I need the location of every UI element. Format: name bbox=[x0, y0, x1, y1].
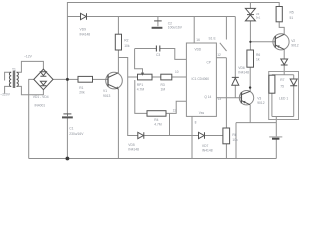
diode VD5 bbox=[138, 132, 144, 138]
transformer T1 bbox=[9, 72, 11, 86]
svg-text:VD1 - VD4: VD1 - VD4 bbox=[33, 95, 49, 99]
wire V2 collector to R5 bbox=[279, 22, 284, 35]
svg-text:~220V: ~220V bbox=[0, 92, 10, 96]
node bridge output junction bbox=[66, 78, 69, 81]
wire bridge output to R1 bbox=[67, 78, 78, 80]
bridge rectifier VD1-VD4 bbox=[34, 69, 53, 90]
svg-text:10k: 10k bbox=[124, 44, 130, 48]
wire VD10 to LED box bbox=[283, 65, 285, 71]
svg-text:LED 1: LED 1 bbox=[279, 97, 288, 101]
wire C3 right to IC pin9 bbox=[160, 49, 187, 60]
svg-text:20k: 20k bbox=[79, 91, 85, 95]
svg-text:R6: R6 bbox=[256, 53, 260, 57]
svg-text:C1: C1 bbox=[69, 127, 73, 131]
svg-text:100u/16V: 100u/16V bbox=[168, 26, 183, 30]
wire C3 left bbox=[135, 48, 156, 50]
capacitor C2 bbox=[154, 20, 162, 22]
svg-text:10k: 10k bbox=[232, 138, 238, 142]
wire R4 right to pin11 bbox=[166, 101, 186, 113]
svg-text:~12V: ~12V bbox=[24, 55, 33, 59]
svg-text:Vss: Vss bbox=[199, 111, 205, 115]
resistor R1 bbox=[78, 76, 93, 82]
wire R3 to IC pin10 bbox=[172, 76, 187, 78]
wire C2 drop bbox=[157, 17, 159, 27]
svg-text:11: 11 bbox=[173, 109, 177, 113]
resistor R5 bbox=[276, 7, 282, 22]
svg-text:V3: V3 bbox=[257, 97, 261, 101]
svg-text:IN4148: IN4148 bbox=[238, 70, 249, 74]
svg-text:C2: C2 bbox=[168, 21, 172, 25]
wire Q14 stub to R6 bbox=[216, 58, 241, 128]
wire R2 to V1 collector bbox=[117, 50, 119, 73]
wire bridge plus down to C1 bbox=[66, 79, 68, 113]
svg-text:RP1: RP1 bbox=[137, 83, 144, 87]
wire R2 drop from rail bbox=[117, 17, 119, 35]
potentiometer RP1 bbox=[138, 74, 153, 80]
svg-text:4.7M: 4.7M bbox=[154, 122, 162, 126]
svg-text:5v1: 5v1 bbox=[256, 15, 261, 19]
wire VD5 to VD7 bbox=[144, 135, 198, 137]
wire IC VDD drop bbox=[193, 17, 195, 44]
resistor R2 bbox=[115, 34, 121, 50]
wire RP1 left stub bbox=[128, 76, 138, 78]
svg-text:75: 75 bbox=[280, 84, 284, 88]
svg-text:16: 16 bbox=[196, 38, 200, 42]
switch S1 upper wire bbox=[225, 17, 227, 40]
wire VD8 to V3 base bbox=[234, 85, 236, 98]
wire transformer primary leads bbox=[5, 72, 12, 94]
svg-text:VDD: VDD bbox=[195, 48, 202, 52]
wire VD7 to R6 bbox=[205, 135, 223, 137]
svg-text:R7: R7 bbox=[280, 78, 284, 82]
wire V2 base bbox=[250, 41, 275, 43]
svg-text:IN4148: IN4148 bbox=[202, 148, 213, 152]
wire secondary top to bridge top bbox=[17, 61, 44, 72]
svg-text:1k: 1k bbox=[256, 58, 260, 62]
svg-text:R2: R2 bbox=[124, 39, 128, 43]
capacitor C3 bbox=[156, 46, 159, 52]
wire R6b to V3 collector bbox=[249, 67, 251, 91]
node V2 base junction bbox=[249, 41, 251, 43]
wire bridge left to ground bbox=[29, 79, 34, 158]
svg-text:IN4148: IN4148 bbox=[80, 32, 91, 36]
svg-text:8: 8 bbox=[195, 120, 197, 124]
wire LED box inner bottom bbox=[272, 86, 294, 120]
svg-text:S1 E: S1 E bbox=[209, 36, 217, 40]
wire collector node jog to RP1 feed bbox=[118, 58, 137, 136]
wire V3 emitter down bbox=[249, 105, 251, 123]
svg-text:VD9: VD9 bbox=[80, 28, 87, 32]
wire LED box inner top split bbox=[272, 72, 294, 80]
svg-text:R3: R3 bbox=[161, 83, 165, 87]
potentiometer RP1 wiper arrow bbox=[141, 73, 144, 76]
capacitor C1 bbox=[63, 113, 71, 115]
IC1 CD4060 box bbox=[186, 43, 216, 116]
transistor V2 bbox=[273, 34, 289, 50]
bowtie VZ bbox=[245, 8, 255, 14]
svg-text:IC1 CD4060: IC1 CD4060 bbox=[192, 77, 210, 81]
svg-text:IN4148: IN4148 bbox=[128, 148, 139, 152]
svg-text:IN4001: IN4001 bbox=[35, 103, 46, 107]
resistor R3 bbox=[161, 74, 172, 80]
svg-text:R5: R5 bbox=[290, 11, 294, 15]
wire LED return through C4 bbox=[275, 120, 277, 159]
transistor V1 bbox=[106, 72, 123, 89]
wire rail 12V bbox=[87, 16, 236, 18]
svg-text:VD5: VD5 bbox=[128, 143, 135, 147]
wire IC pin12 stub bbox=[216, 57, 226, 59]
diode VD8 vertical bbox=[232, 77, 239, 85]
wire bowtie drop from top rail bbox=[249, 3, 251, 9]
wire R4 node drop to VD5 wire bbox=[169, 113, 171, 135]
svg-text:9012: 9012 bbox=[291, 43, 299, 47]
diode VD7 bbox=[199, 132, 205, 138]
svg-text:13: 13 bbox=[218, 97, 222, 101]
wire RP1 to R3 bbox=[152, 76, 161, 78]
wire V1 emitter to ground bbox=[117, 89, 119, 158]
wire V2 emitter to VD10 bbox=[283, 49, 285, 59]
svg-text:51: 51 bbox=[290, 16, 294, 20]
svg-text:4.7M: 4.7M bbox=[137, 87, 145, 91]
switch S1 blade bbox=[220, 43, 227, 51]
wire C1 to ground rail bbox=[66, 118, 68, 159]
wire R1 to V1 base bbox=[93, 78, 109, 80]
diode VD10 bbox=[281, 59, 288, 65]
resistor R4 bbox=[147, 111, 166, 117]
svg-text:1M: 1M bbox=[161, 87, 166, 91]
resistor R6 bbox=[223, 128, 230, 144]
wire secondary bottom to bridge bottom bbox=[17, 86, 44, 94]
wire R6 to ground rail bbox=[225, 144, 227, 159]
wire V3 emitter rail bbox=[236, 123, 276, 159]
LED box bbox=[269, 72, 299, 120]
resistor R6b 1k bbox=[247, 50, 254, 67]
svg-text:Q 14: Q 14 bbox=[204, 95, 211, 99]
svg-text:R1: R1 bbox=[79, 86, 83, 90]
svg-text:9012: 9012 bbox=[257, 101, 265, 105]
diode VD9 bbox=[81, 13, 87, 19]
capacitor C4 bbox=[269, 136, 282, 138]
wire IC pin8 ground drop bbox=[191, 116, 193, 158]
ground bottom rail bbox=[29, 158, 277, 160]
svg-text:9013: 9013 bbox=[103, 94, 111, 98]
svg-text:R6: R6 bbox=[232, 133, 236, 137]
svg-text:CP: CP bbox=[207, 60, 211, 64]
node V3 collector junction bbox=[249, 86, 251, 88]
wire VD8 drop from rail bbox=[234, 17, 236, 78]
svg-text:12: 12 bbox=[217, 53, 221, 57]
svg-text:10: 10 bbox=[175, 70, 179, 74]
svg-text:T1: T1 bbox=[12, 67, 16, 71]
LED D1 bbox=[290, 79, 297, 86]
wire bridge plus up to VD9 bbox=[53, 3, 279, 80]
svg-text:V1: V1 bbox=[103, 89, 107, 93]
node ground rail junction bbox=[66, 157, 70, 161]
svg-text:230u/16V: 230u/16V bbox=[69, 132, 84, 136]
svg-text:C3: C3 bbox=[156, 53, 160, 57]
transistor V3 bbox=[239, 91, 253, 105]
wire C3 node down to R4 bbox=[135, 49, 147, 114]
resistor R7 bbox=[269, 75, 275, 93]
wire bowtie to R6b bbox=[249, 21, 251, 50]
